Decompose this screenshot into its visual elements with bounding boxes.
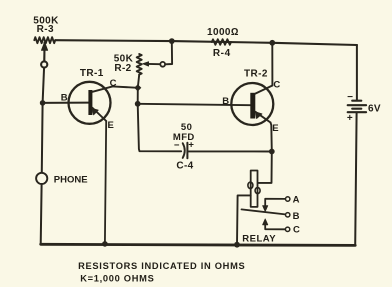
wire C4 to J3: [188, 150, 271, 152]
svg-text:RELAY: RELAY: [242, 234, 276, 245]
R2 wiper arrow: [143, 62, 149, 66]
svg-text:R-4: R-4: [213, 48, 231, 59]
TR1 base bar: [88, 90, 92, 115]
svg-text:RESISTORS INDICATED IN OHMS: RESISTORS INDICATED IN OHMS: [78, 261, 245, 271]
node J3: [269, 149, 275, 155]
node: R2/collector junction: [134, 84, 141, 91]
contact A arrow (down): [263, 206, 268, 212]
resistor R2 zigzag (vertical): [137, 54, 142, 75]
svg-text:TR-1: TR-1: [80, 68, 104, 79]
TR1 emitter lead: [92, 108, 106, 121]
terminal ring on left rail: [41, 61, 47, 67]
contact B ring: [286, 213, 290, 217]
wire bottom bus: [41, 244, 356, 245]
wire J3 down to relay coil: [258, 152, 272, 183]
relay coil left loop: [248, 182, 253, 189]
capacitor C4 left plate (curved): [183, 143, 185, 158]
svg-text:+: +: [347, 113, 353, 124]
wire R2 bottom to collector node: [138, 75, 139, 88]
svg-text:R-2: R-2: [114, 63, 131, 74]
resistor R4 zigzag: [212, 39, 231, 45]
svg-text:C-4: C-4: [176, 160, 193, 171]
svg-text:TR-2: TR-2: [244, 69, 268, 80]
node J2 TR2 collector on top bus: [269, 40, 275, 46]
wire TR1 emitter down: [105, 121, 106, 244]
wire to TR2 base: [138, 104, 251, 105]
node: TR1 base junction: [40, 100, 46, 106]
wire down to C4: [138, 104, 182, 152]
svg-text:PHONE: PHONE: [54, 175, 88, 186]
wire top bus: [55, 40, 357, 45]
transistor TR1 circle: [69, 82, 111, 124]
svg-text:E: E: [272, 123, 278, 134]
svg-text:C: C: [273, 80, 280, 91]
wire contact A: [265, 199, 285, 206]
wire relay coil left lead: [237, 195, 251, 244]
svg-text:C: C: [293, 224, 300, 235]
svg-text:B: B: [222, 96, 229, 107]
TR1 collector lead: [92, 86, 112, 91]
node J1 on top bus: [169, 38, 175, 44]
svg-text:C: C: [110, 78, 117, 89]
contact A ring: [286, 197, 290, 201]
wire R3 wiper stem: [43, 49, 45, 61]
svg-text:+: +: [188, 139, 194, 150]
svg-text:−: −: [174, 140, 180, 151]
battery B1 plates: [352, 100, 361, 102]
wire left rail: [41, 43, 45, 245]
TR2 base bar: [250, 93, 255, 119]
svg-text:−: −: [347, 92, 353, 103]
wire TR1 collector to R2 node: [113, 86, 138, 87]
svg-text:A: A: [293, 195, 300, 206]
wire R2 wiper: [148, 63, 160, 65]
node: relay bottom junction: [234, 242, 240, 248]
wire TR2 collector up: [271, 43, 273, 86]
capacitor C4 right plate: [186, 143, 188, 159]
R3 wiper arrow: [42, 42, 48, 50]
svg-text:K=1,000 OHMS: K=1,000 OHMS: [80, 273, 154, 283]
node: bottom rail / TR1 emitter: [102, 241, 108, 247]
contact C ring: [285, 227, 289, 231]
TR2 collector lead: [255, 86, 272, 94]
wire right rail lower (battery to bottom): [355, 113, 356, 245]
svg-text:1000Ω: 1000Ω: [207, 27, 239, 38]
svg-text:R-3: R-3: [37, 24, 54, 35]
node: TR2 base junction: [135, 101, 141, 107]
relay armature blade: [242, 209, 286, 214]
wire right rail upper (to battery): [356, 45, 358, 100]
relay coil body: [251, 171, 258, 207]
TR2 emitter lead: [255, 112, 270, 123]
wire ring to J1: [165, 41, 172, 64]
TR1 emitter arrow: [92, 108, 98, 115]
R2 wiper ring: [160, 62, 165, 67]
svg-text:6V: 6V: [368, 104, 381, 115]
resistor R3 zigzag: [34, 37, 55, 43]
transistor TR2 circle: [231, 83, 273, 125]
svg-text:B: B: [61, 92, 68, 103]
relay coil right loop: [255, 188, 260, 194]
svg-text:E: E: [108, 120, 114, 131]
svg-text:B: B: [293, 211, 300, 222]
phone jack circle: [36, 173, 47, 184]
wire contact C: [265, 223, 285, 230]
contact C arrow (up): [263, 219, 268, 225]
TR2 emitter arrow: [256, 112, 263, 119]
wire TR2 emitter down to J3: [271, 123, 272, 152]
wire TR1 base: [43, 102, 89, 104]
wire collector node down to base node: [137, 88, 139, 104]
